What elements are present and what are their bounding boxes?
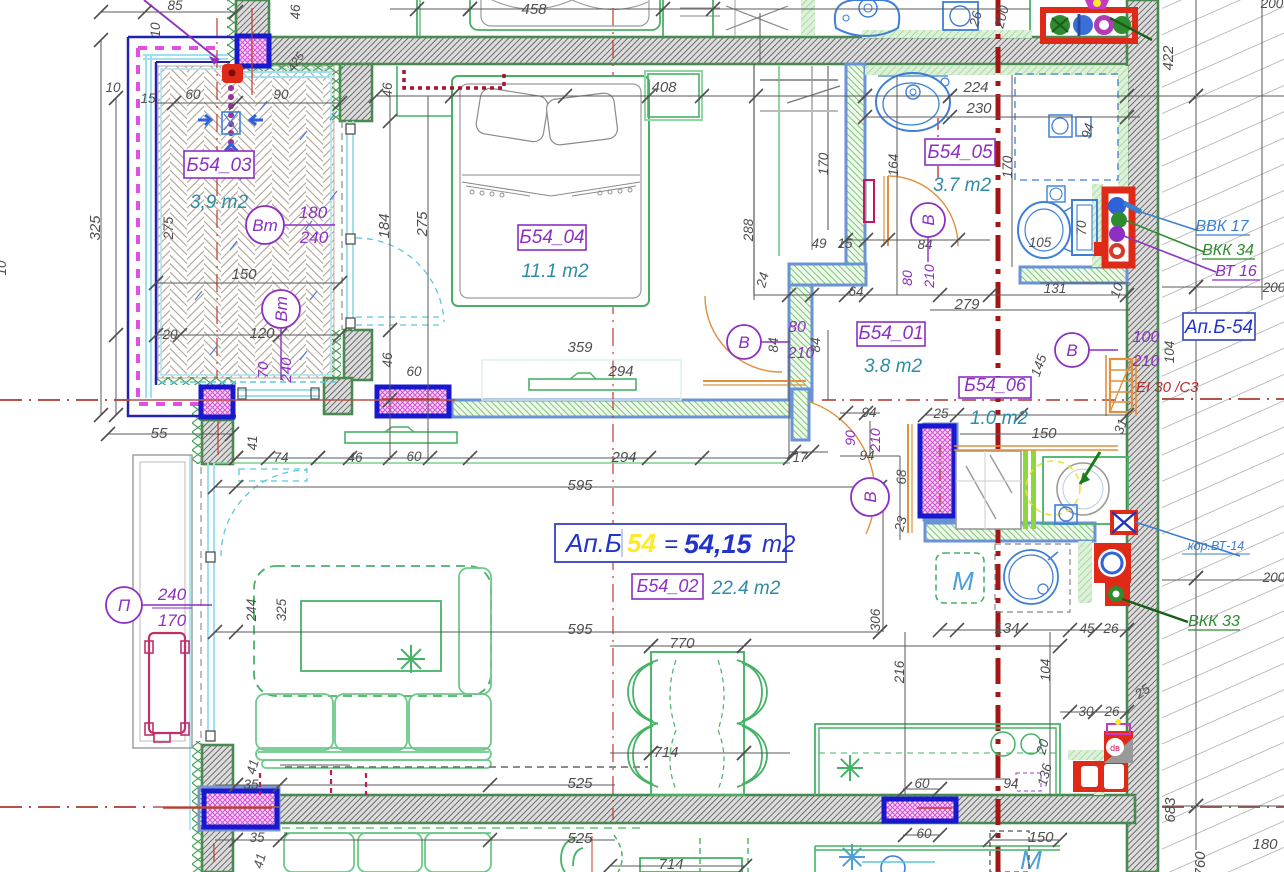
svg-text:90: 90 bbox=[842, 430, 858, 446]
svg-text:Б54_04: Б54_04 bbox=[519, 227, 584, 248]
wall living left lower block bbox=[202, 745, 233, 791]
column C6 outer rim bbox=[199, 787, 279, 830]
svg-text:104: 104 bbox=[1162, 341, 1177, 364]
wall bedroom left bottom bbox=[344, 330, 372, 380]
shower green door strip bbox=[1023, 450, 1028, 529]
wall living left upper block bbox=[202, 420, 233, 464]
room label Б54_02 bbox=[632, 574, 703, 599]
svg-text:170: 170 bbox=[816, 152, 831, 175]
washing machine bbox=[1043, 457, 1128, 524]
svg-text:3.7 m2: 3.7 m2 bbox=[933, 175, 992, 196]
svg-text:230: 230 bbox=[965, 100, 992, 117]
bed bbox=[452, 76, 649, 306]
svg-text:134: 134 bbox=[994, 620, 1019, 637]
svg-text:200: 200 bbox=[1262, 570, 1284, 585]
fan box with X bbox=[1112, 512, 1136, 533]
svg-text:3,9 m2: 3,9 m2 bbox=[190, 192, 249, 213]
bathroom sink bbox=[876, 73, 950, 131]
svg-text:294: 294 bbox=[610, 449, 636, 466]
svg-text:Б54_03: Б54_03 bbox=[186, 155, 252, 176]
svg-text:60: 60 bbox=[916, 826, 932, 841]
bathroom red wall rect bbox=[864, 180, 874, 222]
svg-text:45: 45 bbox=[1079, 621, 1095, 636]
svg-text:ВВК 17: ВВК 17 bbox=[1195, 218, 1249, 235]
purple dotted riser line bbox=[228, 88, 234, 160]
svg-text:41: 41 bbox=[245, 435, 260, 450]
sill band blue lines bbox=[452, 399, 790, 402]
svg-text:210: 210 bbox=[1132, 353, 1160, 370]
svg-text:275: 275 bbox=[161, 216, 176, 240]
svg-text:458: 458 bbox=[521, 1, 547, 18]
door tag Вт bbox=[262, 290, 300, 328]
svg-text:306: 306 bbox=[868, 608, 883, 631]
svg-text:770: 770 bbox=[669, 635, 695, 652]
dishwasher red box bbox=[1073, 761, 1128, 792]
svg-text:595: 595 bbox=[567, 477, 593, 494]
svg-text:55: 55 bbox=[151, 425, 168, 442]
svg-text:ВКК 34: ВКК 34 bbox=[1202, 242, 1254, 259]
svg-text:210: 210 bbox=[867, 428, 883, 453]
svg-text:525: 525 bbox=[567, 830, 593, 847]
neighbour washing machine top bbox=[943, 2, 978, 30]
column C6 bottom-left bbox=[204, 791, 277, 827]
column C1 top-left bbox=[237, 36, 269, 66]
insulation zigzag strips bbox=[227, 0, 236, 64]
terrace navy boundary bbox=[128, 37, 236, 416]
svg-text:1.0 m2: 1.0 m2 bbox=[970, 408, 1029, 429]
wall top stub above column bbox=[236, 0, 269, 37]
svg-text:683: 683 bbox=[1162, 797, 1179, 823]
kitchen counter bbox=[815, 724, 1060, 795]
svg-text:35: 35 bbox=[249, 830, 265, 845]
svg-text:170: 170 bbox=[1000, 155, 1015, 178]
svg-text:714: 714 bbox=[653, 744, 678, 761]
svg-text:=: = bbox=[664, 531, 678, 558]
door tag В bbox=[911, 203, 945, 237]
svg-text:170: 170 bbox=[158, 611, 187, 630]
svg-text:В: В bbox=[861, 491, 880, 502]
riser box middle red bbox=[1105, 190, 1132, 265]
red box da bbox=[1104, 731, 1133, 763]
svg-text:105: 105 bbox=[1029, 235, 1052, 250]
partition bathroom south wall bbox=[1020, 267, 1127, 283]
door tag В bbox=[1055, 333, 1089, 367]
svg-text:26: 26 bbox=[1102, 621, 1119, 636]
svg-text:210: 210 bbox=[921, 264, 937, 289]
svg-text:325: 325 bbox=[87, 215, 104, 241]
svg-text:17: 17 bbox=[792, 450, 808, 465]
svg-text:120: 120 bbox=[249, 325, 275, 342]
svg-text:64: 64 bbox=[848, 284, 863, 299]
bedroom niche wardrobe bbox=[397, 66, 452, 116]
fire door EI30 bbox=[1110, 359, 1132, 412]
bottom neighbour furniture bbox=[282, 827, 640, 829]
svg-text:131: 131 bbox=[1044, 281, 1067, 296]
svg-text:49: 49 bbox=[811, 236, 827, 251]
svg-text:35: 35 bbox=[243, 777, 259, 792]
kitchen sink bbox=[995, 544, 1070, 612]
dimension lines bbox=[100, 40, 102, 415]
svg-text:dв: dв bbox=[1110, 743, 1120, 753]
wall corner left of column C3 bbox=[324, 378, 352, 414]
column C5 bottom bbox=[884, 799, 956, 821]
room label Б54_06 bbox=[959, 377, 1031, 398]
terrace magenta dashed line bbox=[138, 46, 218, 50]
svg-text:359: 359 bbox=[567, 339, 593, 356]
svg-text:150: 150 bbox=[231, 266, 257, 283]
svg-text:224: 224 bbox=[962, 79, 988, 96]
coffee table bbox=[301, 601, 441, 671]
neighbour sink top bbox=[835, 0, 899, 36]
svg-text:216: 216 bbox=[892, 660, 907, 684]
svg-text:30: 30 bbox=[1078, 704, 1094, 719]
svg-text:104: 104 bbox=[1038, 659, 1053, 682]
svg-text:150: 150 bbox=[1028, 829, 1054, 846]
bathroom dashed shower zone bbox=[1015, 74, 1118, 180]
riser box top red bbox=[1043, 10, 1135, 41]
door tag В bbox=[851, 478, 889, 516]
svg-text:Вт: Вт bbox=[252, 216, 278, 235]
boiler red box bbox=[1094, 543, 1131, 583]
small red box green circle bbox=[1105, 583, 1130, 606]
main red centreline x=998 bbox=[996, 0, 1001, 872]
svg-text:Ап.Б-54: Ап.Б-54 bbox=[1184, 317, 1253, 338]
bathroom finish strips bbox=[865, 66, 1127, 75]
svg-text:ВТ 16: ВТ 16 bbox=[1215, 263, 1257, 280]
axis line horizontal y=400 bbox=[0, 399, 130, 401]
svg-text:m2: m2 bbox=[762, 531, 795, 558]
svg-text:46: 46 bbox=[380, 82, 395, 98]
svg-text:408: 408 bbox=[651, 79, 677, 96]
cooktop bbox=[991, 732, 1015, 756]
facade hatch area right bbox=[1162, 0, 1284, 872]
room label Б54_01 bbox=[857, 322, 925, 346]
svg-text:80: 80 bbox=[788, 319, 806, 336]
kitchen M module bbox=[936, 553, 984, 603]
svg-text:25: 25 bbox=[932, 406, 949, 421]
svg-text:54: 54 bbox=[627, 528, 656, 558]
blue leader kor VT-14 bbox=[1135, 522, 1240, 556]
wall right exterior bbox=[1127, 0, 1158, 872]
door tag Вт bbox=[246, 206, 284, 244]
svg-text:Б54_05: Б54_05 bbox=[927, 142, 993, 163]
living west window glazing bbox=[208, 463, 214, 741]
svg-text:180: 180 bbox=[299, 203, 328, 222]
dark red dotted duct bbox=[404, 70, 504, 88]
hall door leaf+arc bbox=[705, 296, 782, 372]
wall living left lowest block bbox=[202, 828, 233, 872]
svg-text:595: 595 bbox=[567, 621, 593, 638]
svg-text:46: 46 bbox=[347, 450, 363, 465]
toilet bbox=[1018, 202, 1070, 258]
shower niche orange top bbox=[954, 446, 1118, 450]
vent grille bbox=[222, 112, 240, 134]
partition bedroom sill band bbox=[452, 400, 790, 417]
svg-text:26: 26 bbox=[1103, 704, 1120, 719]
svg-text:10: 10 bbox=[148, 22, 163, 38]
dining table bbox=[651, 652, 744, 795]
thin red axis terrace x=217 bbox=[216, 18, 218, 378]
living asterisk bbox=[397, 645, 425, 673]
svg-text:760: 760 bbox=[1192, 851, 1209, 872]
svg-text:325: 325 bbox=[274, 598, 289, 621]
blue slash marks on parquet bbox=[205, 119, 212, 128]
bedroom west window glazing bbox=[347, 121, 353, 330]
svg-text:В: В bbox=[738, 333, 749, 352]
rug dashed rounded rect bbox=[254, 566, 491, 696]
partition hall west wall bbox=[789, 285, 812, 401]
partition shower south wall bbox=[925, 523, 1095, 541]
svg-text:11.1 m2: 11.1 m2 bbox=[521, 261, 589, 282]
svg-text:85: 85 bbox=[167, 0, 183, 13]
svg-text:84: 84 bbox=[766, 337, 781, 352]
axis line horizontal y=807 bbox=[0, 806, 150, 808]
svg-text:94: 94 bbox=[1003, 776, 1018, 791]
svg-text:60: 60 bbox=[914, 776, 930, 791]
bedroom balcony door swing bbox=[356, 238, 444, 322]
svg-text:240: 240 bbox=[157, 585, 187, 604]
svg-text:3.8 m2: 3.8 m2 bbox=[864, 356, 923, 377]
terrace parquet floor bbox=[158, 66, 334, 378]
riser leaders bbox=[1124, 203, 1141, 212]
svg-text:244: 244 bbox=[244, 599, 259, 623]
bathroom door leaf+arc bbox=[887, 176, 889, 246]
svg-text:54,15: 54,15 bbox=[684, 529, 753, 559]
svg-text:275: 275 bbox=[414, 211, 431, 238]
svg-text:Б54_02: Б54_02 bbox=[637, 576, 699, 596]
svg-text:10: 10 bbox=[105, 80, 121, 95]
svg-text:150: 150 bbox=[1031, 425, 1057, 442]
svg-text:184: 184 bbox=[376, 213, 393, 238]
partition bathroom south-west wall bbox=[789, 264, 866, 285]
svg-text:70: 70 bbox=[1074, 220, 1089, 236]
svg-text:В: В bbox=[1066, 341, 1077, 360]
svg-text:90: 90 bbox=[273, 87, 289, 102]
radiator bbox=[149, 633, 185, 733]
svg-text:714: 714 bbox=[658, 856, 683, 872]
svg-text:279: 279 bbox=[953, 296, 980, 313]
partition sill band T-stub bbox=[792, 389, 809, 440]
red vent box bbox=[222, 64, 243, 83]
column C3 bedroom bottom bbox=[377, 387, 449, 416]
svg-text:46: 46 bbox=[288, 4, 303, 20]
hall west door arc bbox=[128, 634, 246, 752]
svg-text:Б54_06: Б54_06 bbox=[964, 375, 1027, 395]
column C2 terrace bottom bbox=[201, 387, 233, 417]
main area label bbox=[555, 524, 786, 562]
svg-text:60: 60 bbox=[185, 87, 201, 102]
thin red axis x=613 bbox=[612, 8, 614, 820]
svg-text:240: 240 bbox=[299, 228, 329, 247]
room label Б54_03 bbox=[184, 151, 254, 178]
bedroom south desk/shelf bbox=[482, 360, 681, 400]
lower balcony frame bbox=[133, 455, 192, 748]
svg-text:84: 84 bbox=[917, 237, 932, 252]
wall bottom band bbox=[234, 795, 1135, 823]
living balcony door swing bbox=[221, 470, 307, 556]
svg-text:15: 15 bbox=[140, 91, 156, 106]
bath2 door leaf+arc bbox=[907, 424, 909, 533]
door tag П bbox=[106, 587, 142, 623]
neighbour bed top bbox=[470, 0, 660, 30]
svg-text:10: 10 bbox=[0, 260, 9, 276]
svg-text:В: В bbox=[919, 214, 938, 225]
svg-text:422: 422 bbox=[1160, 45, 1177, 71]
purple arrow to red box bbox=[144, 0, 219, 60]
tv shelf under sill bbox=[345, 432, 457, 443]
svg-text:60: 60 bbox=[406, 449, 422, 464]
svg-text:Вт: Вт bbox=[272, 296, 291, 322]
room label Б54_05 bbox=[925, 139, 995, 165]
partition bathroom west wall bbox=[846, 64, 865, 264]
svg-text:EI 30 /C3: EI 30 /C3 bbox=[1136, 379, 1199, 396]
apartment label right bbox=[1183, 313, 1255, 340]
svg-text:180: 180 bbox=[1252, 836, 1278, 853]
svg-text:80: 80 bbox=[899, 270, 915, 286]
svg-text:525: 525 bbox=[567, 775, 593, 792]
svg-text:164: 164 bbox=[886, 154, 901, 177]
svg-text:П: П bbox=[118, 596, 131, 615]
svg-text:М: М bbox=[952, 566, 974, 596]
svg-text:68: 68 bbox=[894, 469, 909, 485]
svg-text:15: 15 bbox=[837, 236, 853, 251]
svg-text:210: 210 bbox=[787, 345, 815, 362]
dark red dotted duct right bbox=[988, 258, 1012, 273]
svg-text:Ап.Б: Ап.Б bbox=[564, 528, 622, 558]
dining chairs bbox=[633, 663, 653, 721]
wall bedroom left top bbox=[340, 64, 372, 121]
svg-text:100: 100 bbox=[1133, 329, 1160, 346]
svg-text:200: 200 bbox=[1260, 0, 1284, 11]
svg-text:94: 94 bbox=[861, 405, 876, 420]
column C4 shaft bbox=[920, 426, 954, 516]
svg-text:22.4 m2: 22.4 m2 bbox=[711, 578, 781, 599]
room label Б54_04 bbox=[518, 225, 586, 250]
svg-text:200: 200 bbox=[1262, 280, 1284, 295]
partition bbox=[924, 424, 957, 520]
svg-text:М: М bbox=[1020, 845, 1042, 872]
svg-text:60: 60 bbox=[406, 364, 422, 379]
terrace cyan glazing bbox=[145, 55, 147, 398]
svg-text:Б54_01: Б54_01 bbox=[858, 323, 923, 344]
svg-text:70: 70 bbox=[255, 361, 272, 378]
green floor line bbox=[215, 462, 790, 464]
svg-text:294: 294 bbox=[607, 363, 633, 380]
svg-text:20: 20 bbox=[161, 327, 178, 342]
wall top band bbox=[236, 37, 1135, 64]
shower cabin bbox=[956, 451, 1021, 529]
svg-text:288: 288 bbox=[741, 218, 756, 242]
sofa bbox=[256, 568, 491, 768]
nightstand right bbox=[645, 71, 702, 120]
svg-text:74: 74 bbox=[273, 450, 288, 465]
svg-text:46: 46 bbox=[380, 352, 395, 368]
door tag В bbox=[727, 325, 761, 359]
